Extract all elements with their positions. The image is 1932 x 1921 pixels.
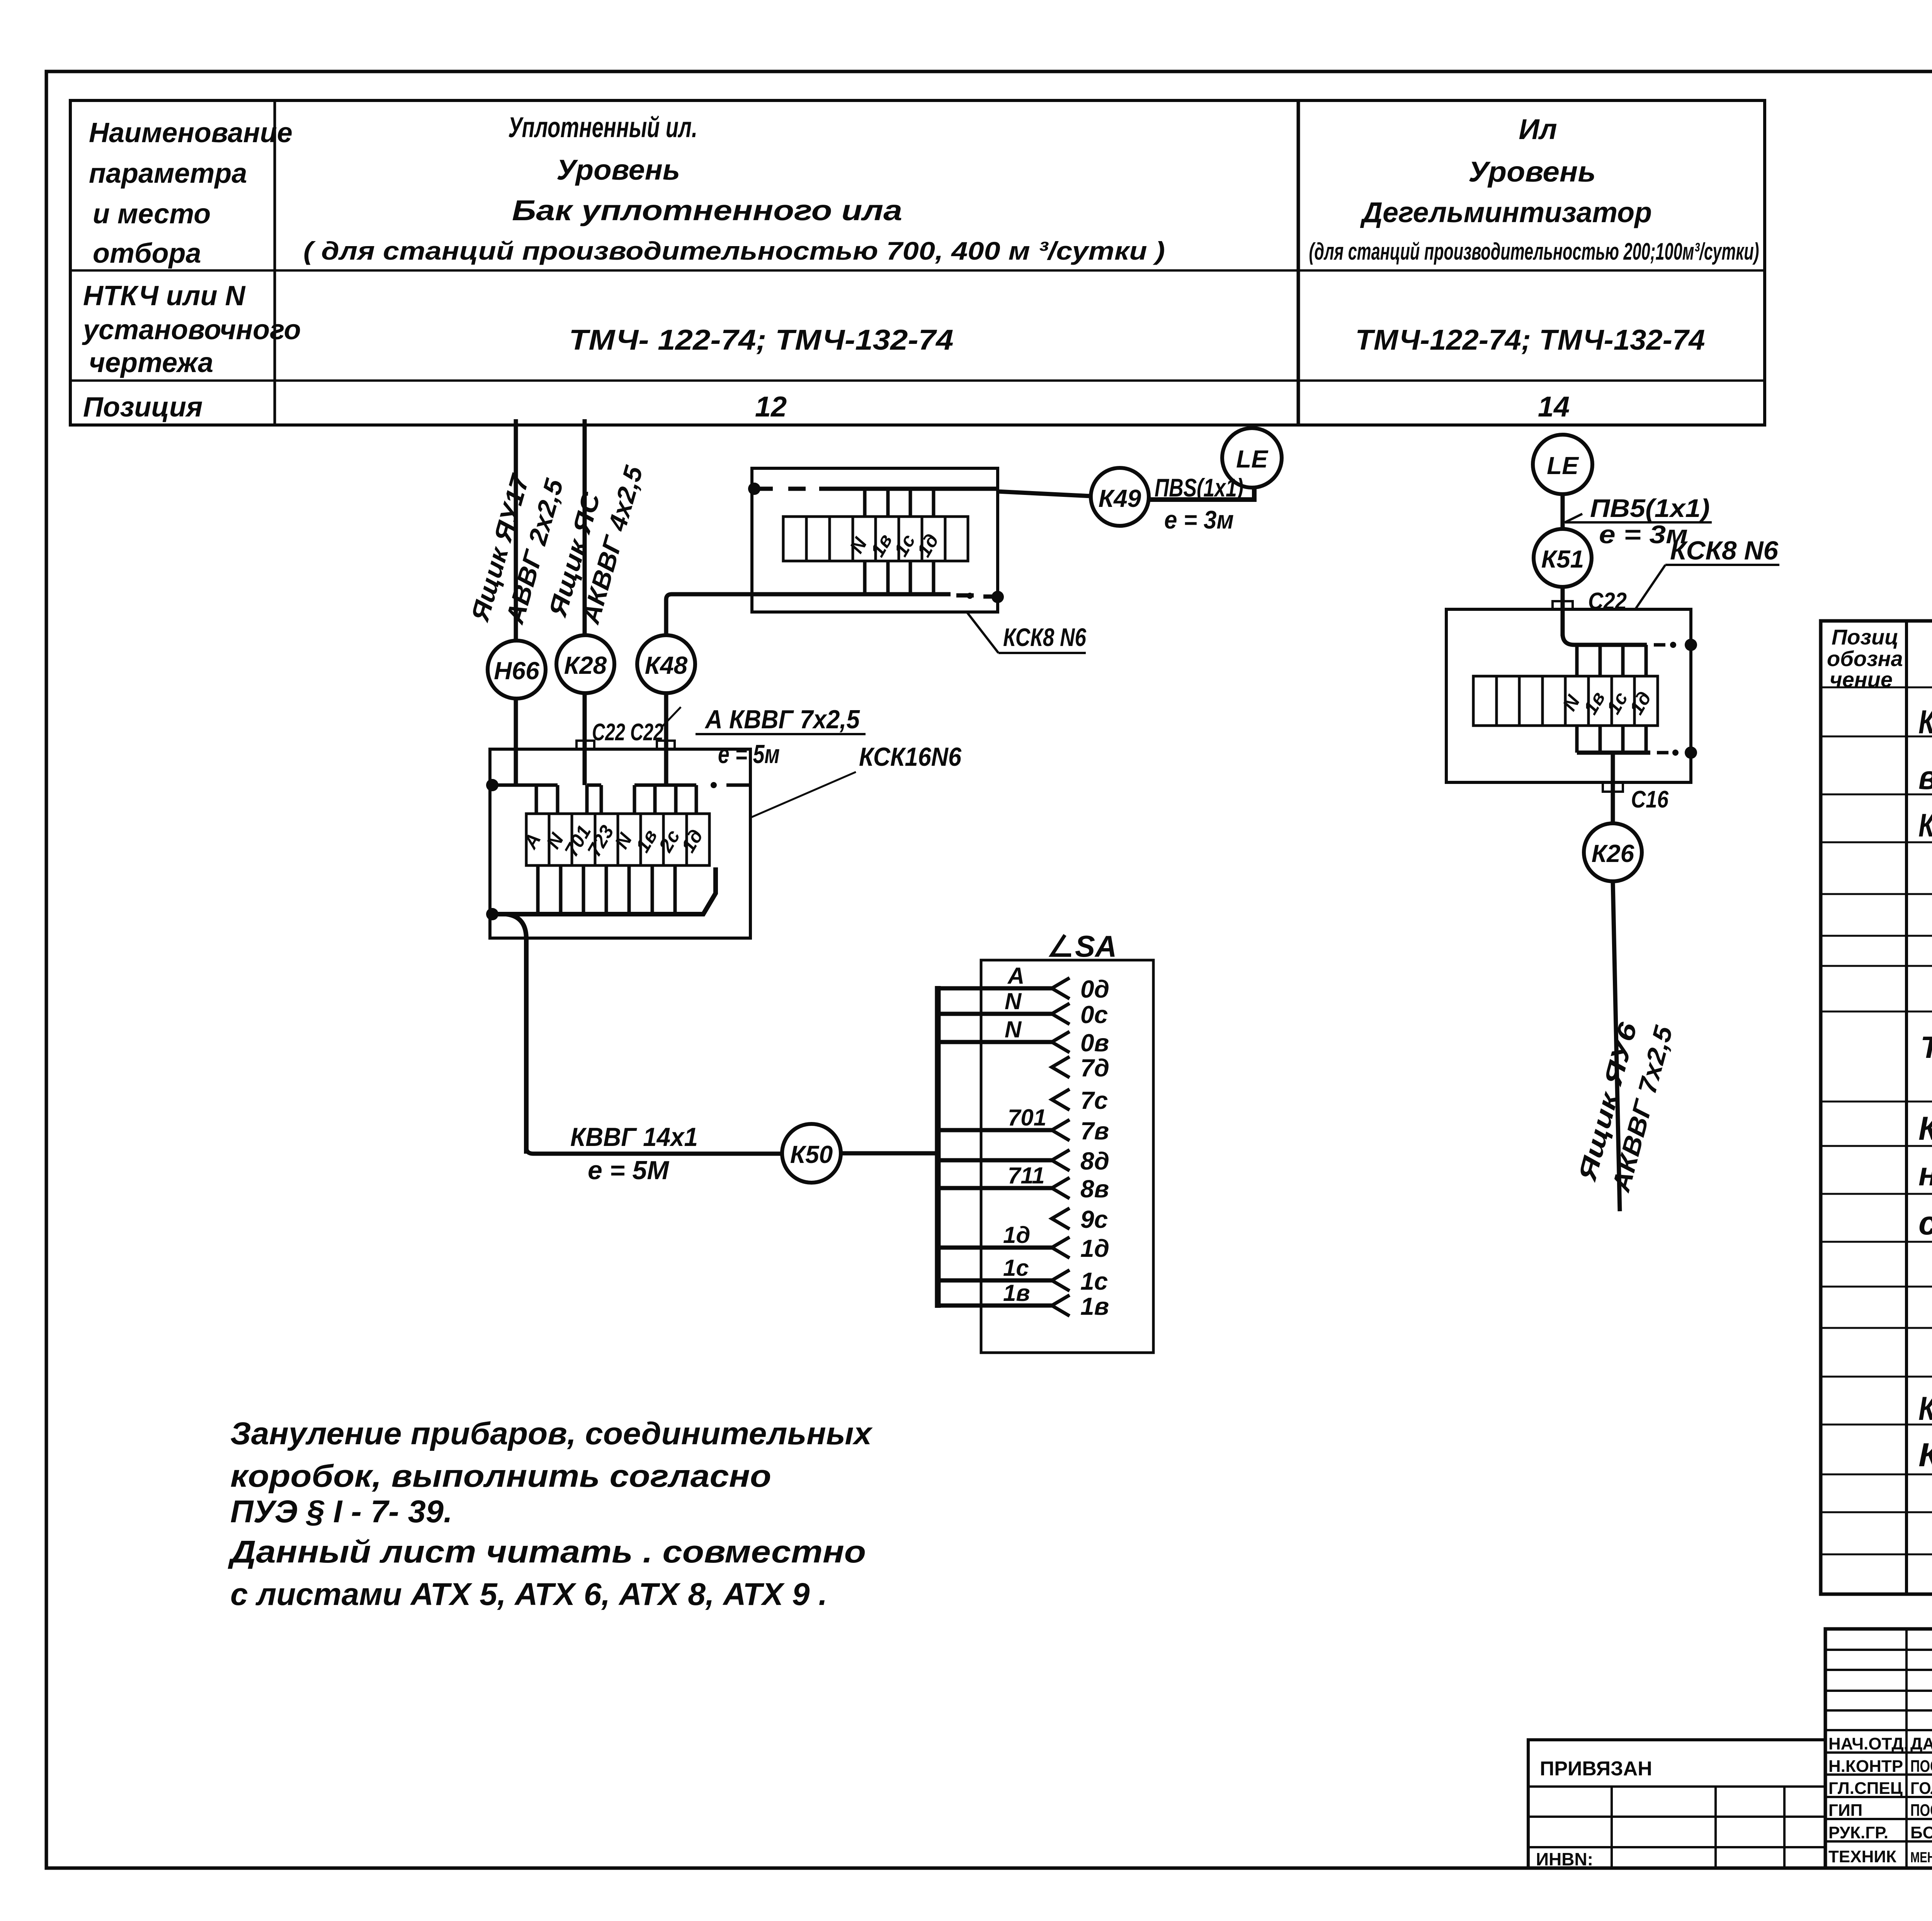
pin 9с xyxy=(1052,1205,1108,1233)
svg-text:Кабель контрольный медной жило: Кабель контрольный медной жилой xyxy=(1918,1390,1932,1427)
headers xyxy=(1827,625,1903,692)
svg-text:1д: 1д xyxy=(1080,1234,1109,1262)
pin 7в wire 701 xyxy=(938,1105,1109,1145)
terminal strip xyxy=(783,517,968,561)
dash-dot to right xyxy=(1654,643,1665,647)
circle K51 xyxy=(1534,529,1592,587)
svg-text:ПУЭ § I - 7- 39.: ПУЭ § I - 7- 39. xyxy=(230,1494,452,1529)
svg-text:1с: 1с xyxy=(1080,1267,1108,1295)
svg-text:ПОСТНИКОВА: ПОСТНИКОВА xyxy=(1910,1801,1932,1820)
svg-text:Н.КОНТР: Н.КОНТР xyxy=(1828,1757,1903,1776)
wire to K50 xyxy=(526,1147,782,1154)
terminal strip 16 xyxy=(526,814,709,865)
svg-text:Уровень: Уровень xyxy=(1468,156,1596,188)
label KCK8 N6 (right) with leader xyxy=(1635,536,1779,609)
svg-text:вый Ду = 15мм; типа 14-М1: вый Ду = 15мм; типа 14-М1 xyxy=(1918,759,1932,796)
svg-text:отбора: отбора xyxy=(93,238,201,269)
svg-text:А КВВГ 7х2,5: А КВВГ 7х2,5 xyxy=(704,705,860,734)
circle LE (left) xyxy=(1222,428,1282,488)
svg-text:ПОСТНИКОВА: ПОСТНИКОВА xyxy=(1910,1757,1932,1776)
svg-text:Наименование: Наименование xyxy=(89,117,293,148)
dash-dot to right edge xyxy=(711,782,717,788)
svg-text:ПВS(1х1): ПВS(1х1) xyxy=(1155,473,1243,502)
svg-text:ПРИВЯЗАН: ПРИВЯЗАН xyxy=(1540,1758,1652,1780)
svg-text:параметра: параметра xyxy=(89,158,247,189)
svg-text:с листами АТХ 5, АТХ 6, АТХ: с листами АТХ 5, АТХ 6, АТХ 8, АТХ 9 . xyxy=(230,1577,827,1612)
svg-text:КСК8 N6: КСК8 N6 xyxy=(1670,536,1779,565)
svg-text:Труба бесшовная: Труба бесшовная xyxy=(1920,1030,1932,1064)
bottom cable wire dash-dot end xyxy=(946,594,998,597)
svg-text:установочного: установочного xyxy=(82,314,301,345)
svg-text:Ил: Ил xyxy=(1519,113,1557,145)
riser wire to H66 (Ящик ЯУ17) xyxy=(465,419,569,641)
LSA connector block xyxy=(938,929,1153,1353)
svg-text:е = 3м: е = 3м xyxy=(1164,505,1234,534)
svg-text:ГЛ.СПЕЦ: ГЛ.СПЕЦ xyxy=(1828,1779,1903,1798)
svg-text:КСК16N6: КСК16N6 xyxy=(859,742,962,772)
circle K28 xyxy=(556,635,614,693)
svg-text:Кабель контрольный с алюми-: Кабель контрольный с алюми- xyxy=(1918,1110,1932,1147)
svg-text:Н66: Н66 xyxy=(494,657,539,685)
circle K48 xyxy=(637,635,695,693)
svg-text:0д: 0д xyxy=(1080,975,1109,1003)
svg-text:ПВ5(1х1): ПВ5(1х1) xyxy=(1590,494,1710,522)
svg-text:711: 711 xyxy=(1008,1163,1045,1188)
svg-text:Кран трехходовой натяжной муфт: Кран трехходовой натяжной муфто- xyxy=(1918,704,1932,741)
svg-text:Данный лист читать . совмест: Данный лист читать . совместно xyxy=(228,1534,866,1569)
label KVVG 14x1 e=5M xyxy=(570,1122,698,1185)
svg-text:С22 С22: С22 С22 xyxy=(592,719,663,746)
svg-text:Бак уплотненного ила: Бак уплотненного ила xyxy=(512,194,902,226)
row: кран трехходовой xyxy=(1918,704,1932,796)
wire K51 to box, gland C22 xyxy=(1553,587,1627,636)
stubs xyxy=(1577,645,1646,753)
svg-text:12: 12 xyxy=(755,391,787,423)
svg-text:сечением:: сечением: xyxy=(1918,1205,1932,1242)
junction box KCK8 N6 (top left) xyxy=(748,468,1004,612)
svg-text:ТЕХНИК: ТЕХНИК xyxy=(1828,1847,1896,1866)
svg-text:LЕ: LЕ xyxy=(1236,445,1269,473)
svg-text:0в: 0в xyxy=(1080,1029,1109,1057)
pin 0д wire А xyxy=(938,963,1109,1003)
svg-text:ИНВN:: ИНВN: xyxy=(1536,1849,1593,1869)
svg-text:7с: 7с xyxy=(1080,1086,1108,1114)
svg-text:Уплотненный ил.: Уплотненный ил. xyxy=(508,111,697,143)
svg-text:К48: К48 xyxy=(645,651,688,679)
svg-text:НТКЧ или N: НТКЧ или N xyxy=(83,280,246,311)
top junction bar and stubs xyxy=(486,779,498,791)
wire K26 down to Ящик ЯУ6 xyxy=(1572,881,1678,1211)
terminal stubs xyxy=(865,489,934,594)
svg-text:(для станций производительност: (для станций производительностью 200;100… xyxy=(1309,238,1759,265)
pin 0в wire N xyxy=(938,1017,1109,1057)
svg-text:А: А xyxy=(1007,963,1024,989)
svg-text:N: N xyxy=(1005,1017,1022,1042)
pin 1в wire 1в xyxy=(938,1280,1109,1320)
exit wire down with gland C16 xyxy=(1611,753,1615,823)
parts list table xyxy=(1821,621,1932,1595)
svg-text:7в: 7в xyxy=(1080,1117,1109,1145)
exit wire down xyxy=(506,914,526,1154)
svg-text:1с: 1с xyxy=(1003,1255,1029,1281)
C22 C22 gland labels on KCK16 xyxy=(577,719,675,749)
pin 1д wire 1д xyxy=(938,1222,1109,1262)
svg-text:SА: SА xyxy=(1075,929,1117,963)
svg-text:и место: и место xyxy=(93,199,211,229)
svg-text:КВВГ 14х1: КВВГ 14х1 xyxy=(570,1122,698,1152)
svg-text:ГОЛЬЦМАН: ГОЛЬЦМАН xyxy=(1910,1779,1932,1798)
terminal strip xyxy=(1473,676,1658,726)
svg-text:701: 701 xyxy=(1008,1105,1046,1130)
svg-text:ТМЧ-122-74; ТМЧ-132-74: ТМЧ-122-74; ТМЧ-132-74 xyxy=(1355,324,1705,356)
left bus xyxy=(935,986,941,1308)
circle K50 xyxy=(782,1124,841,1183)
pin 7д xyxy=(1052,1054,1109,1082)
circle K26 xyxy=(1584,823,1642,881)
svg-text:1в: 1в xyxy=(1080,1292,1109,1320)
svg-text:Дегельминтизатор: Дегельминтизатор xyxy=(1360,196,1652,228)
pin 8д xyxy=(938,1147,1109,1175)
svg-text:С16: С16 xyxy=(1631,786,1668,813)
svg-text:К51: К51 xyxy=(1541,545,1584,573)
bottom comb xyxy=(538,865,675,914)
pin 1с wire 1с xyxy=(938,1255,1108,1295)
bottom bus xyxy=(486,908,498,920)
svg-text:КСК8 N6: КСК8 N6 xyxy=(1003,623,1087,651)
svg-text:8в: 8в xyxy=(1080,1175,1109,1203)
junction box KCK16 N6 xyxy=(486,693,750,1154)
svg-text:БОЕВА: БОЕВА xyxy=(1910,1823,1932,1842)
svg-text:коробок, выполнить согласно: коробок, выполнить согласно xyxy=(230,1459,771,1494)
circle K49 xyxy=(1091,468,1149,526)
svg-text:N: N xyxy=(1005,988,1022,1014)
label PBS(1x1) e=3m xyxy=(1155,473,1243,534)
riser wire to K28 (Ящик ЯС) xyxy=(543,419,648,635)
wire LE to K51 xyxy=(1561,494,1565,529)
wire KCK8 to K49 xyxy=(998,491,1091,496)
svg-text:е = 5М: е = 5М xyxy=(588,1156,669,1185)
svg-text:1в: 1в xyxy=(1003,1280,1030,1306)
svg-text:К26: К26 xyxy=(1592,840,1634,867)
svg-text:14: 14 xyxy=(1538,391,1570,423)
label KCK8 N6 (left box) with leader xyxy=(967,612,1087,653)
notes text block xyxy=(228,1416,873,1612)
circle LE (right) xyxy=(1533,435,1592,494)
wire H66 down into box xyxy=(514,699,518,785)
wire K28 down into box xyxy=(583,693,587,785)
привязан block xyxy=(1528,1740,1825,1869)
top cable wire with dash-dot xyxy=(748,483,760,495)
svg-text:Зануление прибаров, соедините: Зануление прибаров, соединительных xyxy=(230,1416,873,1451)
wire K49 to LE with bend xyxy=(1149,488,1254,500)
wire K48 label wire down into box xyxy=(664,693,668,785)
svg-text:КВВГ с сечением:: КВВГ с сечением: xyxy=(1918,1436,1932,1474)
pin 0с wire N xyxy=(938,988,1108,1028)
svg-text:8д: 8д xyxy=(1080,1147,1109,1175)
svg-text:0с: 0с xyxy=(1080,1001,1108,1028)
pin 8в wire 711 xyxy=(938,1163,1109,1203)
svg-text:РУК.ГР.: РУК.ГР. xyxy=(1828,1823,1888,1842)
pin 7с xyxy=(1052,1086,1108,1114)
wire K48 to KCK8 box xyxy=(666,594,946,635)
svg-text:К49: К49 xyxy=(1099,484,1141,512)
circle H66 xyxy=(488,641,546,699)
svg-text:Позиция: Позиция xyxy=(83,392,202,423)
svg-text:чение: чение xyxy=(1830,667,1893,692)
svg-text:Уровень: Уровень xyxy=(556,154,680,186)
svg-text:9с: 9с xyxy=(1080,1205,1108,1233)
bottom collector xyxy=(1577,751,1650,755)
svg-text:Позиц: Позиц xyxy=(1832,625,1898,649)
label KCK16 N6 with leader xyxy=(752,742,962,817)
internal top wire xyxy=(1563,634,1647,645)
svg-text:НАЧ.ОТД.: НАЧ.ОТД. xyxy=(1828,1734,1908,1753)
svg-text:К50: К50 xyxy=(790,1141,833,1168)
svg-text:МЕНОВЩИКОВА: МЕНОВЩИКОВА xyxy=(1910,1850,1932,1866)
label ПВ5(1х1) e=3м with leader arrow xyxy=(1565,494,1712,549)
top parameter table xyxy=(70,100,1765,425)
svg-text:Коробка соединительная ТУ36 17: Коробка соединительная ТУ36 1753-75 xyxy=(1918,807,1932,843)
svg-text:LЕ: LЕ xyxy=(1547,452,1579,479)
svg-text:ТМЧ- 122-74; ТМЧ-132-74: ТМЧ- 122-74; ТМЧ-132-74 xyxy=(569,324,954,356)
svg-text:1д: 1д xyxy=(1003,1222,1030,1248)
svg-text:( для станций производительно: ( для станций производительностью 700, 4… xyxy=(303,236,1165,265)
label A КВВГ 7х2,5 e=5м with leader xyxy=(662,705,866,769)
svg-text:ниевой жилой АКВВГ с: ниевой жилой АКВВГ с xyxy=(1918,1156,1932,1193)
svg-text:К28: К28 xyxy=(564,651,607,679)
svg-text:ГИП: ГИП xyxy=(1828,1801,1862,1820)
svg-text:7д: 7д xyxy=(1080,1054,1109,1082)
svg-text:ДАНИЛОВ: ДАНИЛОВ xyxy=(1910,1734,1932,1753)
junction box KCK8 N6 (right) xyxy=(1446,609,1697,823)
wire K50 to LSA bus xyxy=(841,1151,938,1156)
svg-text:чертежа: чертежа xyxy=(89,347,213,378)
title block xyxy=(1825,1629,1932,1870)
